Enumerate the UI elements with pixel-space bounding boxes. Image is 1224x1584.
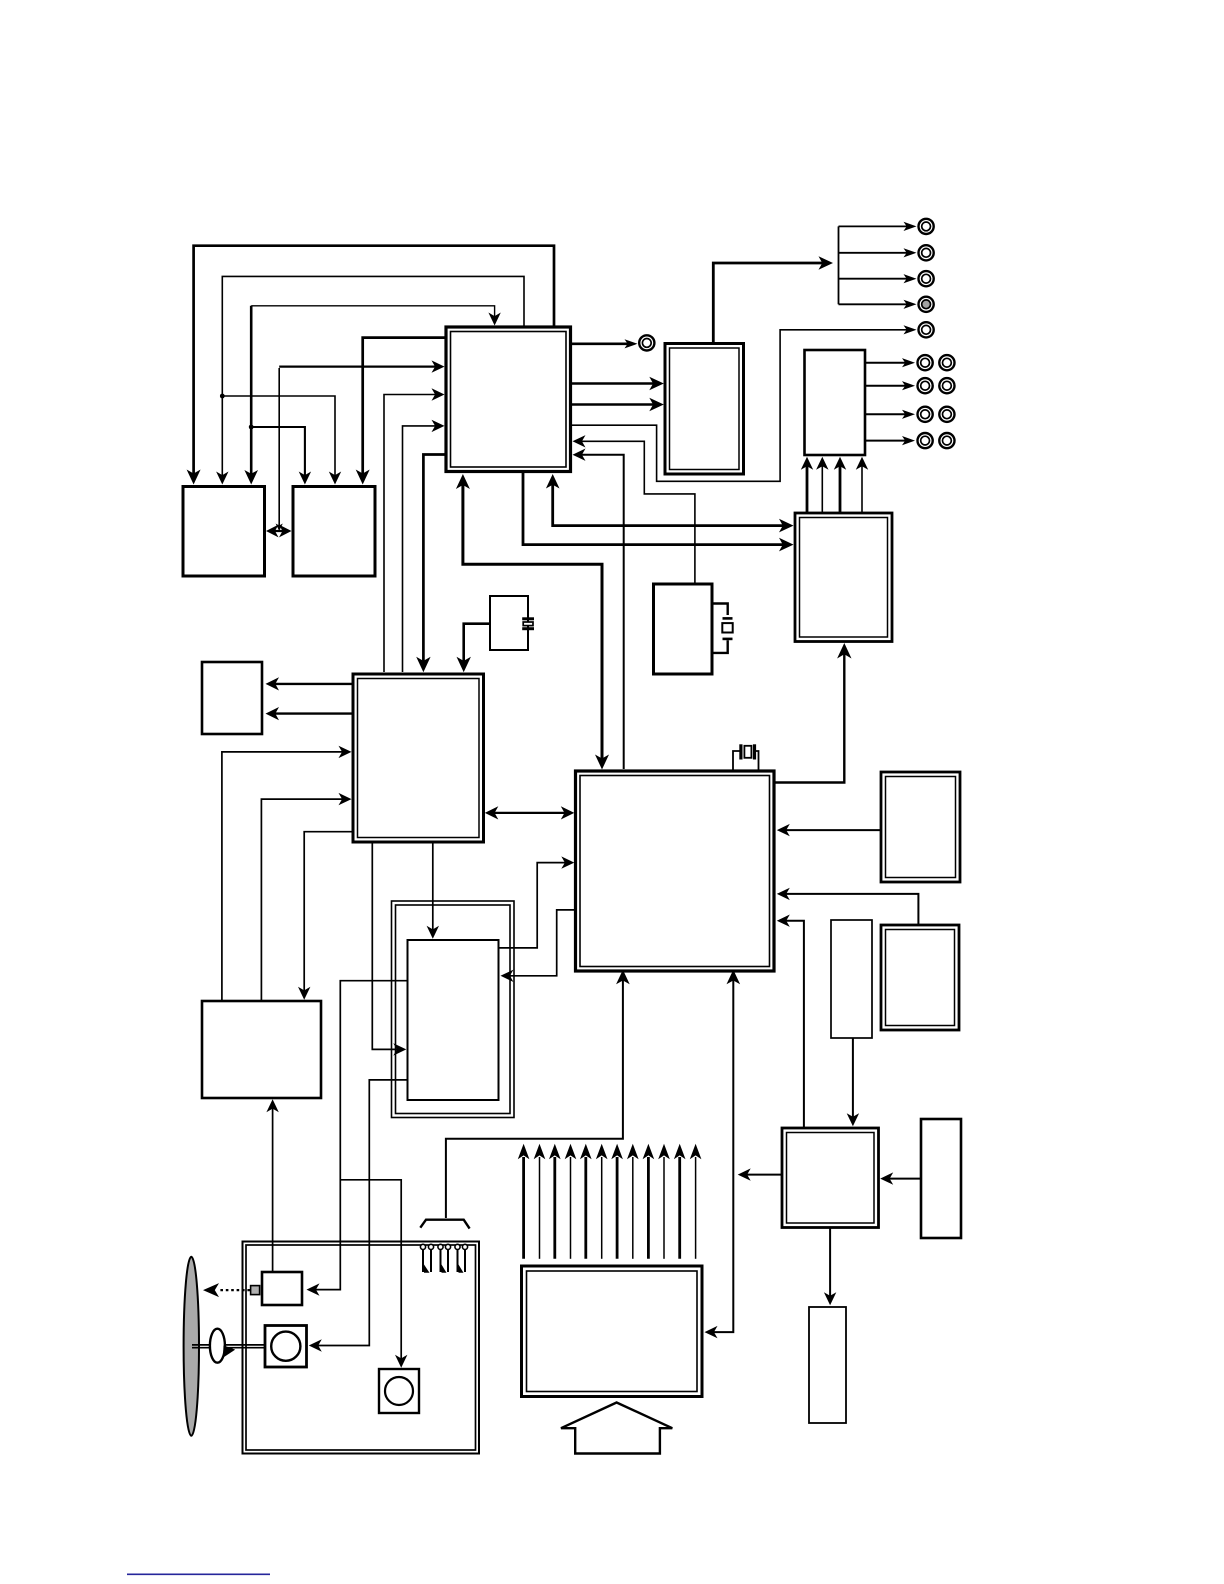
wire box A / box B / box1 (net 3): [250, 306, 253, 478]
wire servo - main IC bidirectional: [489, 812, 570, 814]
wire box G to box F right: [885, 1178, 920, 1180]
block: mechanism inner box: [408, 940, 499, 1100]
jack J2: [919, 219, 934, 234]
block: capstan motor box: [265, 1326, 307, 1368]
wire box1 top to box A (net 1): [194, 246, 554, 478]
wire box1 left to box B top: [363, 338, 447, 478]
block: tuner box A: [183, 487, 265, 577]
wire servo to syscon top: [304, 832, 354, 993]
wire box F top to main IC right: [782, 921, 804, 1129]
block: oscillator box: [490, 596, 528, 650]
block: key box G: [921, 1119, 961, 1238]
wire IF box to audio box at x=822.3: [821, 464, 823, 514]
block: Y/C output amp (box2): [665, 344, 744, 475]
wire servo bottom to mech inner box top: [432, 841, 434, 932]
wire box D to main IC right: [782, 894, 918, 926]
video head symbol (trapezoid bracket): [420, 1220, 469, 1229]
wire main IC bottom / monitor right net: [708, 979, 733, 1332]
block: memory box C: [881, 772, 960, 882]
wire audio box to jack pair 2: [864, 385, 908, 387]
wire deck head box to syscon bottom: [272, 1103, 274, 1272]
block: video/chroma IC (box1): [446, 327, 571, 472]
wire box1 bottom to main IC top (bidirectional): [463, 479, 602, 763]
wire IF box to audio box at x=862: [861, 464, 863, 514]
block: audio output box: [805, 350, 866, 455]
block: mechanism outer box: [392, 901, 515, 1118]
wire box F left to monitor net: [742, 1174, 783, 1176]
wire video head to main IC bottom: [446, 979, 623, 1218]
jack J1 (box1 output): [639, 335, 654, 350]
wire box1 bottom to IF box left (upper): [553, 479, 786, 526]
wire box1 top to box A and box B (net 2): [222, 276, 524, 478]
block: A/C head box in deck: [262, 1272, 302, 1305]
head drum (gray ellipse): [184, 1257, 199, 1436]
wire servo top to box1 left arrow 1: [384, 395, 436, 673]
block: tuner box B: [293, 487, 375, 577]
block: IF/tuner box (795): [795, 513, 892, 642]
wire box A - box B bidirectional link with tap to box1: [278, 368, 280, 527]
block: servo IC: [353, 674, 484, 842]
wire box1 to box2 arrow 1: [569, 382, 657, 385]
block: display box H: [809, 1307, 846, 1423]
wire bundle: monitor drive signals (12 up arrows): [522, 1157, 525, 1259]
deck connector pins (3 pairs): [420, 1244, 425, 1249]
wire IF box to audio box at x=840: [839, 464, 842, 514]
wire mech inner box to capstan motor: [313, 1080, 408, 1346]
block: reel motor box: [379, 1369, 419, 1413]
block: reset box E: [831, 920, 872, 1038]
wire main IC right to IF box bottom: [773, 650, 844, 783]
rotation direction flag: [223, 1345, 235, 1357]
crystal X2 on resonator box: [711, 604, 728, 616]
block: deck mechanism enclosure: [243, 1242, 480, 1454]
wire servo top to box1 left arrow 2: [403, 426, 437, 672]
wire mech inner box to reel motor and deck head box: [311, 981, 408, 1290]
wire audio box to jack pair 4: [864, 440, 908, 442]
wire syscon to servo arrow 1: [222, 752, 345, 1000]
wire oscillator to servo top: [464, 624, 491, 664]
jack pair row 2: [918, 378, 933, 393]
wire IF box to audio box at x=807: [806, 464, 809, 514]
gray sensor square on deck edge: [251, 1286, 260, 1295]
wire audio box to jack pair 3: [864, 413, 908, 415]
wire mech inner box to main IC left: [499, 863, 568, 948]
wire servo bottom to mech inner box left: [372, 841, 402, 1049]
block: resonator box: [654, 584, 713, 674]
hollow arrow: power input (house arrow): [561, 1403, 672, 1454]
jack pair row 3: [918, 407, 933, 422]
wire bus to jack J4: [839, 278, 910, 280]
wire box E to box F top: [852, 1037, 854, 1121]
block: timer box F: [782, 1128, 879, 1228]
wire box1 to output jack J5 (long jog): [569, 330, 909, 482]
wire box1 to output jack J1: [569, 342, 631, 345]
block: main system IC: [576, 771, 775, 971]
block: system control box (syscon): [202, 1001, 321, 1098]
wire box F bottom to box H top: [829, 1226, 831, 1299]
crystal X1 on oscillator box: [522, 617, 534, 620]
wire main IC left to mech inner box: [505, 910, 575, 976]
wire box1 left to servo top: [423, 455, 447, 665]
wire servo to mode box arrow 1: [270, 683, 354, 685]
jack J4: [919, 271, 934, 286]
wire bus to jack J6: [839, 303, 910, 305]
block: memory box D: [881, 925, 959, 1030]
dotted arrow to head drum: [220, 1289, 250, 1291]
crystal X3 on main IC top: [733, 751, 740, 770]
footer blue rule: [127, 1573, 270, 1575]
jack J5 (gray): [919, 297, 934, 312]
wire bus to jack J2: [839, 225, 910, 227]
wire servo to mode box arrow 2: [270, 712, 354, 714]
wire box1 to box2 arrow 2: [569, 403, 657, 406]
wire syscon to servo arrow 2: [261, 799, 345, 1000]
wire main IC top to box1 right: [578, 455, 624, 769]
wire box2 top to jack bus: [713, 263, 826, 345]
block: mode select box: [202, 662, 262, 734]
wire box1 bottom to IF box left (lower): [523, 470, 786, 545]
jack J6: [919, 322, 934, 337]
wire box C to main IC right: [782, 829, 882, 831]
pinch roller ellipse: [210, 1329, 225, 1363]
jack pair row 4: [918, 433, 933, 448]
wire bus to jack J3: [839, 252, 910, 254]
jack pair row 1: [918, 355, 933, 370]
block: fluorescent display / monitor box: [522, 1266, 703, 1397]
wire audio box to jack pair 1: [864, 362, 908, 364]
jack J3: [919, 245, 934, 260]
capstan shaft lines: [192, 1344, 266, 1346]
wire jack bus vertical: [838, 226, 840, 304]
wire resonator box top to box1 right (jog): [578, 441, 695, 583]
